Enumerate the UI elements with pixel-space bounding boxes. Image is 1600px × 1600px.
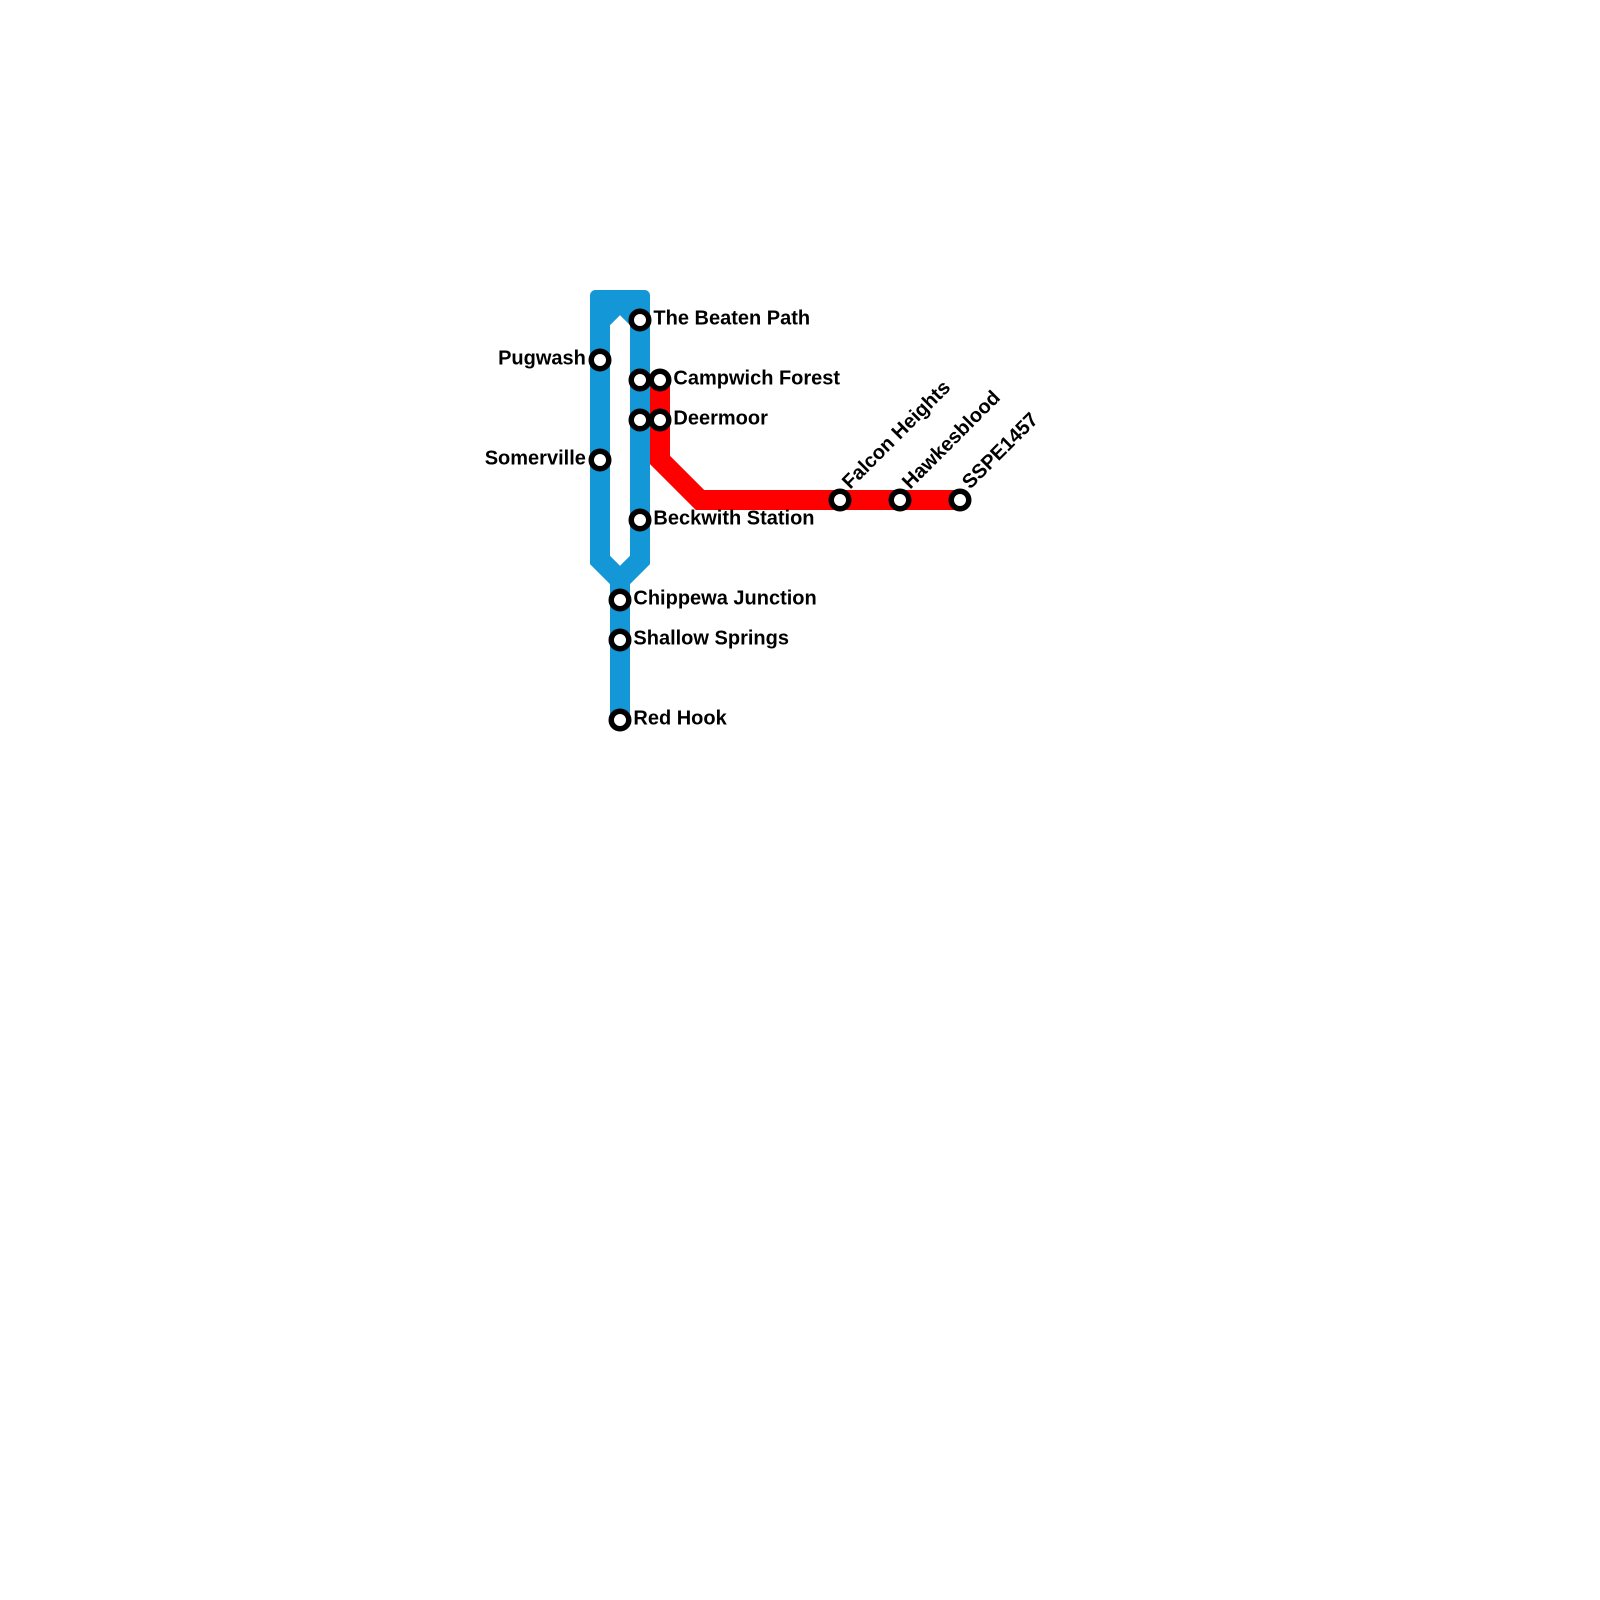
svg-text:Pugwash: Pugwash [498, 348, 586, 370]
svg-text:Falcon Heights: Falcon Heights [838, 376, 955, 493]
station The Beaten Path [631, 311, 649, 329]
svg-text:Red Hook: Red Hook [633, 708, 727, 730]
station Shallow Springs [611, 631, 629, 649]
svg-text:Chippewa Junction: Chippewa Junction [633, 588, 816, 610]
red line [660, 380, 960, 500]
station Falcon Heights [831, 491, 849, 509]
svg-text:Shallow Springs: Shallow Springs [633, 628, 789, 650]
station Deermoor (red) [651, 411, 669, 429]
blue line south tail [610, 580, 630, 720]
svg-text:Beckwith Station: Beckwith Station [653, 508, 814, 530]
blue line loop (legs and bottom V) [600, 300, 640, 580]
station Red Hook [611, 711, 629, 729]
svg-text:The Beaten Path: The Beaten Path [653, 308, 810, 330]
station Beckwith Station [631, 511, 649, 529]
station Deermoor (blue) [631, 411, 649, 429]
station Campwich Forest (red) [651, 371, 669, 389]
station Somerville [591, 451, 609, 469]
station Chippewa Junction [611, 591, 629, 609]
station SSPE1457 [951, 491, 969, 509]
station Pugwash [591, 351, 609, 369]
blue line top chevron [600, 301, 640, 321]
svg-text:Campwich Forest: Campwich Forest [673, 368, 840, 390]
blue line top band [590, 290, 650, 310]
station Hawkesblood [891, 491, 909, 509]
svg-text:Somerville: Somerville [485, 448, 586, 470]
svg-text:Deermoor: Deermoor [673, 408, 768, 430]
station Campwich Forest (blue) [631, 371, 649, 389]
